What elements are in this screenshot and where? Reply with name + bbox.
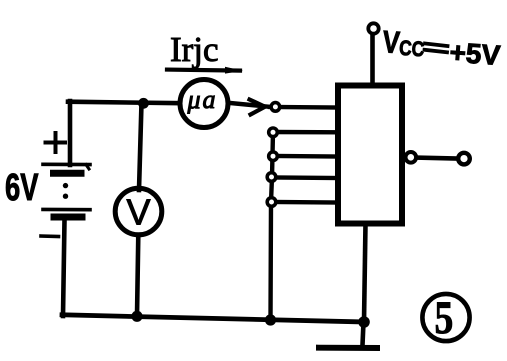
wire: input pin 3 stub to IC [273, 154, 340, 159]
svg-text:5: 5 [435, 292, 454, 344]
wire: voltmeter to bottom rail [137, 235, 138, 316]
svg-text:V: V [126, 192, 150, 233]
svg-text:μa: μa [186, 85, 217, 114]
junction dot (ground branch / bottom rail) [358, 316, 370, 328]
svg-text:Irjc: Irjc [170, 30, 219, 69]
bottom rail wire [62, 315, 366, 322]
IC U1 body [338, 86, 402, 224]
svg-text:6V: 6V [5, 167, 38, 209]
ground symbol [319, 322, 377, 348]
battery plus sign [46, 133, 66, 152]
figure number 5 (circled) [422, 292, 469, 344]
voltmeter V1 [115, 188, 162, 235]
wire: input pin 1 stub to IC [270, 105, 340, 110]
node A junction dot (top rail / voltmeter branch) [138, 98, 149, 109]
svg-text:VCC: VCC [381, 25, 425, 63]
wire: input pin 2 stub to IC [273, 130, 340, 135]
junction dot (input bus / bottom rail) [265, 314, 276, 325]
wire: input pin 4 stub to IC [272, 175, 341, 180]
battery minus sign [41, 234, 59, 238]
output terminal T7 (open end) [458, 153, 470, 165]
wire: battery positive to top-left corner [68, 101, 73, 165]
junction dot (voltmeter / bottom rail) [131, 311, 142, 322]
wire: VCC terminal to IC top [370, 34, 375, 86]
arrow under Irjc [167, 67, 243, 74]
VCC terminal [368, 23, 378, 33]
input terminal T5 [267, 198, 276, 207]
wire: junction down to voltmeter [139, 103, 142, 190]
wire: IC bottom to ground junction [364, 224, 366, 322]
input terminal T2 [269, 128, 278, 137]
input terminal T1 [271, 103, 280, 112]
wire: top rail from corner to microammeter [68, 102, 180, 104]
input terminal T4 [267, 173, 276, 182]
wire: battery negative down to bottom rail [63, 220, 65, 316]
label VCC=+5V [381, 25, 501, 71]
battery BT1 (6V multi-cell) [43, 164, 90, 217]
microammeter M1 [180, 80, 228, 128]
wire: microammeter to input terminal (with arrowhead) [230, 100, 270, 115]
wire: input bus vertical down to bottom rail [271, 132, 274, 321]
wire: input pin 5 stub to IC [272, 200, 341, 205]
svg-text:+5V: +5V [449, 37, 502, 71]
wire: IC to output terminal [403, 157, 456, 158]
input terminal T3 [269, 152, 278, 161]
output terminal T6 (at IC) [406, 152, 417, 163]
